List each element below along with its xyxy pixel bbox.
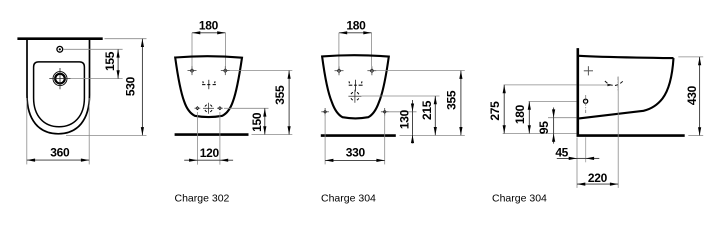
extension lines for 180 (338, 33, 340, 67)
leader from right fixing hole (355 top) (230, 70, 292, 72)
base line (thick) (321, 134, 396, 137)
leader from drain level (150 top) (224, 107, 269, 109)
side fixing hole left (321, 108, 329, 116)
drain symbol (plan) (49, 68, 70, 89)
side fixing hole left (front bottom) (195, 106, 201, 110)
leader 95 top (548, 117, 576, 119)
extension lines for 120 (196, 112, 198, 165)
svg-text:530: 530 (123, 76, 137, 96)
extension lines for 180 (191, 33, 193, 67)
svg-text:355: 355 (273, 85, 287, 105)
dimension 180 (339, 32, 372, 34)
leader from faucet hole (64, 48, 123, 50)
leader to spout inside body (275 reference) (579, 84, 611, 86)
svg-text:180: 180 (199, 18, 219, 32)
svg-text:Charge 302: Charge 302 (175, 192, 230, 204)
extension lines for 360 (26, 98, 28, 164)
floor line (thick horizontal) (577, 134, 685, 137)
bidet body outline (front) (322, 55, 389, 118)
side fixing hole right (381, 108, 389, 116)
dimension 530 (141, 39, 143, 136)
bidet outer outline (plan) (27, 39, 90, 134)
svg-text:Charge 304: Charge 304 (321, 192, 376, 204)
dimension 355 (view 2) (288, 71, 290, 135)
hidden spout symbol (dashed) (202, 80, 216, 89)
svg-text:180: 180 (513, 104, 527, 124)
wall fixing cross (584, 66, 593, 75)
wall line (top, thick) (17, 37, 102, 40)
drain (front, hidden dashed) (203, 103, 214, 114)
body front profile and bottom edge (side) (579, 58, 674, 118)
svg-text:130: 130 (398, 109, 412, 129)
svg-text:275: 275 (488, 101, 502, 121)
dimension 45 (outside arrows) (577, 157, 586, 159)
dimension 330 (325, 159, 385, 161)
faucet hole (57, 46, 63, 52)
dimension 155 (117, 49, 119, 78)
extension line wall face down to 220 dim (576, 138, 578, 188)
bottom-left leader (floor reference) (503, 133, 577, 135)
wall line (thick vertical) (576, 48, 579, 135)
fixing hole right (367, 66, 376, 75)
hidden spout symbol (dashed) (349, 80, 363, 92)
bottom leader for 215/355 (400, 134, 465, 136)
dimension 220 (577, 183, 618, 185)
svg-text:360: 360 (50, 146, 70, 160)
leader bottom for 530 (66, 134, 147, 136)
dimension 180 (side) (528, 102, 530, 134)
svg-text:150: 150 (250, 112, 264, 132)
top leader for 430 (678, 56, 703, 58)
body top edge (side) (579, 56, 674, 58)
hidden spout arc (dashed) (605, 80, 624, 86)
svg-text:220: 220 (588, 171, 608, 185)
dimension 95 (outside arrows) (553, 118, 555, 134)
leader from drain (215 top) (362, 95, 440, 97)
dimension 355 (view 3) (460, 71, 462, 136)
dash-dot line through wall hole down to 45 dim (585, 95, 587, 114)
svg-text:120: 120 (200, 146, 220, 160)
bottom leader for 430 (688, 135, 703, 137)
fixing hole left (335, 66, 344, 75)
dimension 215 (434, 96, 436, 135)
bidet inner basin rim (plan) (34, 62, 85, 127)
dimension 275 (503, 85, 505, 134)
leader from right fixing hole (355 top) (376, 70, 464, 72)
leader 180 top (529, 101, 577, 103)
bottom leader for 150/355 (252, 134, 293, 136)
drain (front, hidden dashed) (348, 90, 361, 103)
svg-text:355: 355 (445, 90, 459, 110)
leader 275 top (504, 84, 577, 86)
dimension 130 (outside arrows) (412, 112, 414, 135)
leader from side hole (130 top) (389, 111, 417, 113)
leader from drain (71, 78, 123, 80)
svg-text:Charge 304: Charge 304 (492, 192, 547, 204)
fixing hole right (221, 66, 230, 75)
svg-text:155: 155 (103, 51, 117, 71)
base line (thick) (175, 133, 249, 136)
dimension 180 (192, 32, 226, 34)
side fixing hole right (front bottom) (217, 106, 223, 110)
bidet body outline (front) (175, 56, 242, 117)
extension line from spout center down to 220 dim (617, 77, 619, 188)
dimension 360 (27, 159, 89, 161)
extension lines for 330 (324, 114, 326, 164)
dimension 430 (699, 57, 701, 136)
leader top for 530 (105, 38, 147, 40)
dimension 120 (outside arrows) (197, 159, 220, 161)
svg-text:430: 430 (685, 85, 699, 105)
svg-text:215: 215 (420, 100, 434, 120)
wall fixing hole circle (584, 99, 588, 103)
fixing hole left (188, 66, 197, 75)
svg-text:95: 95 (537, 121, 551, 134)
svg-text:180: 180 (346, 18, 366, 32)
svg-text:45: 45 (555, 146, 568, 160)
dimension 150 (264, 108, 266, 134)
svg-text:330: 330 (346, 146, 366, 160)
